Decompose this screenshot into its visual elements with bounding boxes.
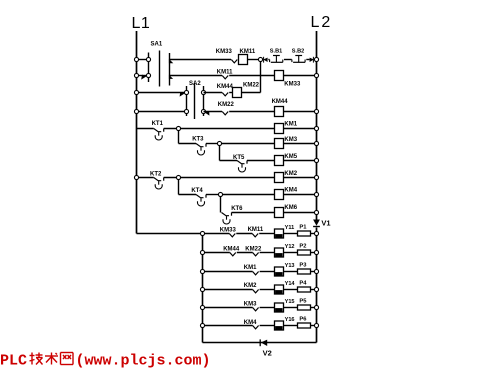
pushbutton SB1 — [270, 49, 283, 63]
clutch Y15 — [275, 299, 295, 312]
contact KM2 (row P4) — [244, 283, 259, 293]
svg-text:L2: L2 — [311, 14, 333, 31]
svg-text:(www.plcjs.com): (www.plcjs.com) — [76, 353, 211, 370]
svg-text:KT1: KT1 — [152, 121, 164, 127]
wire rung 1 — [170, 59, 317, 61]
node A (junction after KM11) — [258, 57, 262, 92]
svg-text:KT2: KT2 — [150, 171, 162, 177]
node L2-r10 — [314, 210, 318, 214]
node right-P4 — [314, 287, 318, 291]
node left-P2 — [200, 250, 204, 254]
wire row P3 — [203, 271, 317, 273]
diode V2 — [260, 339, 272, 357]
node L2-r5 — [314, 126, 318, 130]
timed contact KT1 — [152, 121, 164, 140]
svg-text:KT4: KT4 — [191, 188, 203, 194]
svg-text:KM33: KM33 — [220, 228, 237, 234]
coil KM6 — [275, 205, 298, 217]
resistor P6 — [298, 317, 311, 328]
svg-text:PLC: PLC — [0, 353, 27, 370]
rail L1 — [132, 15, 203, 233]
coil KM4 — [275, 188, 298, 200]
wire rung 3 — [204, 92, 261, 94]
timed contact KT4 — [191, 188, 206, 206]
timed contact KT2 — [150, 171, 164, 189]
svg-text:S.B1: S.B1 — [270, 49, 282, 55]
node L2-r8 — [314, 175, 318, 179]
node L1-r1 — [134, 57, 138, 61]
svg-text:KM33: KM33 — [216, 49, 233, 55]
wire rung 4 — [204, 111, 317, 113]
wire rung 9 — [179, 194, 317, 196]
svg-text:KM22: KM22 — [245, 247, 262, 253]
svg-text:Y13: Y13 — [285, 263, 295, 269]
node E (KT4 out) — [218, 192, 222, 212]
coil KM22 — [233, 82, 260, 97]
node left-P4 — [200, 287, 204, 291]
clutch Y16 — [275, 317, 295, 330]
selector switch SA2 — [137, 81, 210, 119]
timed contact KT3 — [192, 137, 206, 155]
node C (KT3 out) — [217, 141, 221, 160]
wire row P2 — [203, 252, 317, 254]
svg-text:P6: P6 — [299, 317, 307, 323]
svg-text:KM5: KM5 — [284, 154, 297, 160]
svg-text:KT3: KT3 — [192, 137, 204, 143]
wire rung 8 — [137, 177, 317, 179]
svg-text:KM33: KM33 — [284, 81, 301, 87]
svg-text:P1: P1 — [299, 225, 307, 231]
svg-text:KM1: KM1 — [244, 265, 257, 271]
contact KM11 (row P1) — [248, 227, 264, 237]
bottom-left bus wire — [203, 234, 317, 343]
node right-P2 — [314, 250, 318, 254]
contact KM1 (row P3) — [244, 265, 259, 275]
svg-text:KM22: KM22 — [243, 82, 260, 88]
svg-text:SA1: SA1 — [151, 42, 163, 48]
svg-text:KM1: KM1 — [284, 122, 297, 128]
node left-P6 — [200, 323, 204, 327]
clutch Y13 — [275, 263, 295, 276]
svg-text:Y15: Y15 — [285, 299, 295, 305]
svg-text:KM4: KM4 — [284, 188, 297, 194]
node left-P1 — [200, 231, 204, 235]
pushbutton SB2 — [292, 49, 305, 63]
resistor P1 — [298, 225, 311, 236]
svg-text:KM44: KM44 — [272, 99, 289, 105]
svg-text:Y12: Y12 — [285, 244, 295, 250]
node L2-r7 — [314, 158, 318, 162]
clutch Y11 — [275, 225, 295, 238]
svg-text:KT6: KT6 — [231, 206, 243, 212]
contact KM33 (row P1) — [220, 228, 237, 237]
coil KM5 — [275, 154, 298, 166]
coil KM2 — [275, 171, 298, 183]
svg-text:V2: V2 — [263, 348, 272, 357]
contact KM3 (row P5) — [244, 301, 259, 311]
rail L2 — [311, 14, 333, 343]
polarity mark right (rung 1) — [310, 57, 314, 63]
svg-text:KM2: KM2 — [284, 171, 297, 177]
svg-text:Y11: Y11 — [285, 225, 295, 231]
wire rung 5 — [137, 128, 317, 130]
svg-text:KM6: KM6 — [284, 205, 297, 211]
node L1-r8 — [134, 175, 138, 179]
svg-text:P4: P4 — [299, 281, 307, 287]
wire row P4 — [203, 289, 317, 291]
svg-text:Y14: Y14 — [285, 281, 296, 287]
svg-text:KM44: KM44 — [217, 84, 234, 90]
coil KM11 — [239, 49, 256, 65]
svg-text:L1: L1 — [132, 15, 151, 32]
svg-text:V1: V1 — [321, 219, 330, 228]
resistor P3 — [298, 263, 311, 274]
clutch Y14 — [275, 281, 296, 294]
timed contact KT5 — [233, 155, 247, 172]
contact KM4 (row P6) — [244, 320, 259, 329]
wire row P6 — [203, 325, 317, 327]
diode V1 — [313, 219, 330, 228]
node L2-r1 — [314, 57, 318, 61]
contact KM11 (rung 2) — [217, 70, 233, 79]
timed contact KT6 — [222, 206, 244, 224]
node B (KT1 out) — [176, 126, 180, 143]
node L2-r9 — [314, 192, 318, 196]
node right-P5 — [314, 305, 318, 309]
contact KM33 (rung 1) — [216, 49, 238, 63]
node L1-r3 — [134, 90, 138, 94]
contact KM44 (rung 3) — [217, 84, 234, 96]
resistor P5 — [298, 299, 311, 310]
svg-text:P3: P3 — [299, 263, 307, 269]
svg-text:KM3: KM3 — [244, 301, 257, 307]
svg-text:Y16: Y16 — [285, 317, 295, 323]
polarity mark left (rung 1) — [263, 57, 267, 63]
node left-P3 — [200, 269, 204, 273]
node L1-r4 — [134, 109, 138, 113]
node right-P3 — [314, 269, 318, 273]
svg-text:KM11: KM11 — [248, 227, 264, 233]
node D (KT2 out) — [176, 175, 180, 194]
coil KM1 — [275, 122, 298, 134]
node L1-r2 — [134, 73, 138, 77]
svg-text:P2: P2 — [299, 244, 306, 250]
svg-text:KT5: KT5 — [233, 155, 245, 161]
wire rung 7 — [220, 160, 317, 162]
clutch Y12 — [275, 244, 295, 257]
node L2-r2 — [314, 73, 318, 77]
wire row P5 — [203, 307, 317, 309]
contact KM22 (rung 4) — [218, 102, 235, 115]
resistor P2 — [298, 244, 311, 255]
coil KM3 — [275, 137, 298, 149]
node L2-r6 — [314, 141, 318, 145]
node L2-r4 — [314, 109, 318, 113]
wire rung 6 — [179, 143, 317, 145]
svg-text:KM4: KM4 — [244, 320, 257, 326]
coil KM44 — [272, 99, 289, 117]
svg-text:KM3: KM3 — [284, 137, 297, 143]
selector switch SA1 — [137, 42, 174, 87]
wire rung 2 — [170, 75, 317, 77]
svg-text:S.B2: S.B2 — [292, 49, 304, 55]
watermark PLC site text — [0, 353, 211, 370]
svg-text:P5: P5 — [299, 299, 307, 305]
svg-text:KM22: KM22 — [218, 102, 235, 108]
coil KM33 — [275, 71, 301, 88]
resistor P4 — [298, 281, 311, 292]
svg-text:KM2: KM2 — [244, 283, 257, 289]
node right-P1 — [314, 231, 318, 235]
node left-P5 — [200, 305, 204, 309]
contact KM44 (row P2) — [223, 247, 240, 256]
wire row P1 — [203, 233, 317, 235]
node right-P6 — [314, 323, 318, 327]
svg-text:KM44: KM44 — [223, 247, 240, 253]
svg-text:KM11: KM11 — [217, 70, 233, 76]
wire rung 10 — [232, 212, 317, 214]
contact KM22 (row P2) — [245, 247, 262, 256]
